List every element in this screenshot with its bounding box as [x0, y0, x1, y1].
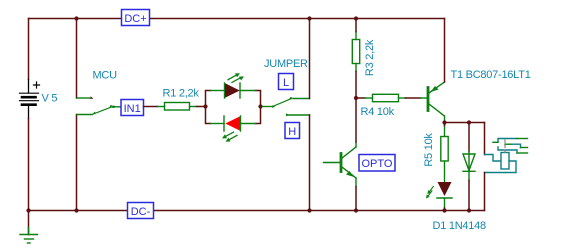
wire collector rail to relay coil: [484, 123, 486, 155]
svg-text:R1 2,2k: R1 2,2k: [163, 88, 200, 100]
svg-text:R5 10k: R5 10k: [423, 133, 435, 167]
opto coupler OPTO transistor: [324, 142, 357, 187]
wire R1 to LED node: [197, 106, 206, 108]
node bottom rail x28: [26, 208, 30, 212]
wire IN1 to R1: [144, 106, 158, 108]
wire battery left vertical top: [28, 19, 30, 80]
switch S1 pivot stub: [77, 114, 92, 116]
switch JP lever arrowhead: [289, 97, 293, 100]
node bottom rail x468: [467, 208, 471, 212]
wire LED loop right: [256, 91, 261, 124]
svg-text:DC-: DC-: [131, 206, 151, 218]
LED D lower light arrows: [225, 132, 238, 140]
relay K1 coil return: [485, 161, 517, 173]
LED D upper light arrows: [228, 75, 242, 83]
LED D upper (dark): [211, 83, 256, 98]
wire bottom rail DC-: [29, 210, 485, 212]
wire D1 to DC-: [444, 208, 446, 211]
relay K1 actuator dashed link: [504, 140, 506, 153]
wire node to R4: [356, 97, 365, 99]
wire battery left vertical bottom: [28, 119, 30, 211]
net label IN1: [121, 100, 144, 116]
resistor R1: [158, 103, 197, 111]
switch S1 lever: [92, 107, 112, 115]
ground: [20, 211, 38, 244]
svg-text:IN1: IN1: [124, 103, 141, 115]
node bottom rail x309: [307, 208, 311, 212]
battery V 5: [20, 80, 40, 119]
svg-text:R4 10k: R4 10k: [361, 106, 395, 118]
resistor R4: [365, 94, 406, 101]
relay K1 contact common: [498, 147, 517, 153]
wire DC+ to MCU switch contact: [76, 19, 78, 99]
switch JP upper contact: [293, 98, 310, 100]
wire LED loop left/top: [206, 91, 211, 107]
wire OPTO emitter to DC-: [355, 187, 357, 211]
diode D2 (freewheel): [463, 152, 475, 181]
svg-text:L: L: [283, 77, 289, 89]
node bottom rail x76: [74, 208, 78, 212]
switch JP pivot tick: [272, 105, 275, 108]
node LED left junction: [203, 104, 207, 108]
node bottom rail x444: [442, 208, 446, 212]
wire DC- to MCU switch pivot: [76, 115, 78, 211]
diode D1 (LED style): [437, 182, 452, 208]
transistor T1: [428, 82, 445, 122]
wire L contact to DC+: [309, 19, 311, 99]
svg-text:OPTO: OPTO: [362, 158, 393, 170]
svg-text:D1 1N4148: D1 1N4148: [433, 220, 487, 232]
switch S1 contact pad: [112, 106, 114, 108]
switch JP pivot stub: [263, 106, 273, 108]
wire R4 to T1 base: [406, 97, 421, 99]
wire T1 collector rail: [445, 122, 485, 124]
transistor T1 emitter arrow (PNP): [431, 86, 439, 92]
svg-text:R3 2,2k: R3 2,2k: [364, 39, 376, 76]
node collector/R5: [442, 120, 446, 124]
wire D2 to DC-: [468, 181, 470, 211]
node junction top rail x76: [74, 16, 78, 20]
wire relay to DC-: [484, 173, 486, 211]
switch JP lower contact tick: [286, 113, 289, 116]
svg-text:MCU: MCU: [93, 70, 118, 82]
resistor R3: [352, 32, 359, 72]
wire node to OPTO collector: [355, 98, 357, 142]
opto transistor emitter arrow (NPN): [346, 171, 354, 177]
node bottom rail x356: [354, 208, 358, 212]
switch S1 upper contact tick: [90, 96, 93, 99]
net label DC+: [122, 10, 150, 26]
resistor R5: [441, 126, 448, 182]
wire H contact to DC-: [309, 115, 311, 211]
svg-text:V 5: V 5: [42, 93, 58, 105]
LED D lower (red): [211, 116, 256, 131]
wire node to D2: [468, 123, 470, 152]
node junction top rail x355: [354, 16, 358, 20]
wire T1 base pin: [421, 97, 428, 99]
wire lever to IN1: [115, 106, 122, 108]
wire DC+ to T1 emitter: [444, 19, 446, 83]
net label H: [285, 123, 300, 139]
net label L: [279, 74, 294, 90]
node LED right junction: [258, 104, 262, 108]
wire R3 to node: [355, 72, 357, 99]
svg-text:JUMPER: JUMPER: [264, 58, 308, 70]
wire top rail DC+: [29, 18, 445, 20]
wire DC+ to R3: [355, 19, 357, 32]
svg-text:DC+: DC+: [124, 13, 146, 25]
wire node to R5: [444, 123, 446, 126]
node junction top rail x309: [307, 16, 311, 20]
node R3/R4/OPTO junction: [354, 96, 358, 100]
diode D1 light arrows: [428, 187, 434, 197]
switch JP lower contact: [288, 114, 310, 116]
switch JP lever: [273, 99, 292, 107]
relay K1 contact NC: [498, 139, 517, 143]
relay K1 lever stub: [493, 141, 498, 143]
wire LED loop left/bottom: [206, 107, 211, 124]
node collector/D2: [467, 120, 471, 124]
switch S1 lever arrowheads: [92, 112, 96, 115]
net label OPTO: [359, 155, 395, 172]
net label DC-: [128, 203, 154, 219]
relay K1 coil: [501, 153, 509, 170]
relay K1 contact middle: [505, 143, 512, 145]
relay K1 coil feed: [485, 155, 502, 162]
svg-text:H: H: [288, 126, 296, 138]
svg-text:T1 BC807-16LT1: T1 BC807-16LT1: [451, 69, 531, 81]
switch S1 upper contact stub: [77, 97, 90, 99]
